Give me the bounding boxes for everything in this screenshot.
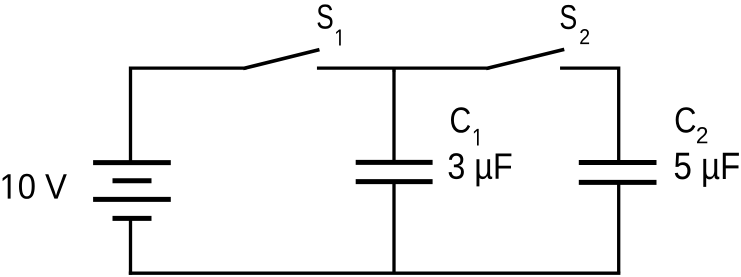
- switch S2 open blade: [488, 50, 563, 68]
- wire: battery negative lead down to bottom-left corner: [129, 218, 132, 273]
- label S2 subscript 2: [580, 29, 589, 44]
- label C2 subscript 2: [697, 127, 707, 143]
- capacitor C2 bottom plate: [579, 180, 657, 185]
- battery V1 top long plate (positive): [93, 160, 171, 165]
- wire: battery positive lead up to top-left corner and across to S1 hinge: [131, 68, 245, 163]
- label C1 value 3 microfarad: [449, 153, 512, 186]
- label S1 subscript 1: [336, 30, 341, 46]
- label S2 letter S: [561, 5, 576, 29]
- wire: top segment from S1 fixed contact to S2 hinge: [319, 66, 488, 69]
- battery V1 third long plate: [93, 197, 171, 202]
- label C1 subscript 1: [474, 129, 479, 146]
- capacitor C1 bottom plate: [356, 179, 433, 184]
- battery V1 second short plate: [113, 178, 152, 183]
- wire: top-right segment from S2 fixed contact to corner and down to C2: [562, 68, 619, 162]
- label C2 letter C: [676, 107, 696, 133]
- wire: C1 top lead from junction down to top plate: [392, 68, 395, 162]
- label C2 value 5 microfarad: [675, 153, 739, 187]
- capacitor C2 top plate: [579, 160, 657, 165]
- label S1 letter S: [318, 4, 333, 29]
- label 10 V battery value: [3, 174, 67, 199]
- wire: bottom bus from battery to C2 branch: [129, 272, 621, 275]
- switch S1 open blade: [245, 50, 318, 68]
- wire: C1 bottom lead down to bottom bus: [392, 182, 395, 274]
- label C1 letter C: [451, 107, 470, 133]
- battery V1 bottom short plate (negative): [113, 216, 152, 221]
- wire: C2 bottom lead down to bottom bus: [617, 182, 620, 273]
- node: T-junction of top wire with C1 branch: [392, 68, 395, 72]
- capacitor C1 top plate: [356, 160, 433, 165]
